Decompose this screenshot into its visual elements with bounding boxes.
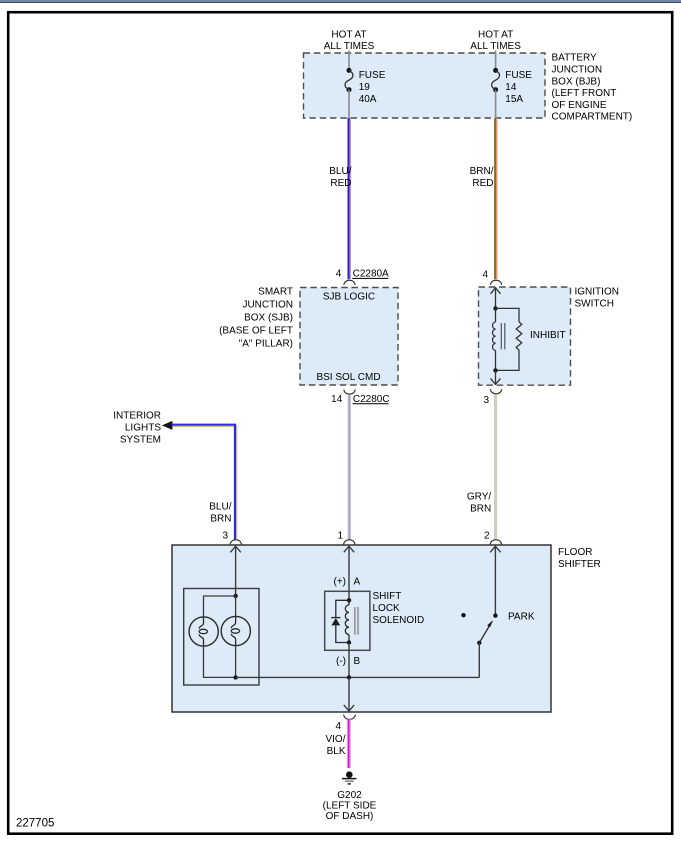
svg-text:3: 3 <box>222 531 228 542</box>
svg-text:BOX (SJB): BOX (SJB) <box>244 313 293 324</box>
svg-text:B: B <box>354 656 361 667</box>
connector arc shifter pin 1 <box>344 540 356 545</box>
wire GRY/BRN <box>495 395 497 540</box>
svg-text:PARK: PARK <box>508 611 535 622</box>
wire fuse 19 to box edge <box>348 90 350 118</box>
node lamp top junction <box>233 594 237 598</box>
svg-text:JUNCTION: JUNCTION <box>242 300 293 311</box>
svg-text:SHIFTER: SHIFTER <box>558 559 601 570</box>
wire GRY/VIO from SJB to shifter pin 1 <box>348 395 349 540</box>
svg-text:ALL TIMES: ALL TIMES <box>324 41 375 52</box>
ignition entry arrow <box>491 288 501 309</box>
wire diode branch bottom <box>336 625 349 642</box>
svg-text:INTERIOR: INTERIOR <box>113 411 161 422</box>
svg-text:SYSTEM: SYSTEM <box>120 435 161 446</box>
svg-text:RED: RED <box>472 178 493 189</box>
pin 4 label C2280A <box>336 269 389 280</box>
wire coil to bottom node <box>495 350 497 370</box>
svg-text:4: 4 <box>336 269 342 280</box>
label (+) A <box>334 576 361 587</box>
pin 2 entry arrow <box>490 546 500 615</box>
svg-text:FUSE: FUSE <box>359 70 386 81</box>
svg-text:BATTERY: BATTERY <box>552 53 598 64</box>
label VIO/BLK <box>325 734 345 757</box>
svg-text:3: 3 <box>483 395 489 406</box>
inductor inhibit coil <box>492 322 504 350</box>
label HOT AT ALL TIMES (right) <box>470 29 521 52</box>
svg-text:SOLENOID: SOLENOID <box>373 615 425 626</box>
floor shifter box <box>172 545 551 712</box>
label FLOOR SHIFTER <box>558 547 601 570</box>
svg-text:SWITCH: SWITCH <box>575 299 614 310</box>
svg-text:A: A <box>354 576 361 587</box>
wire BRN/RED <box>495 118 497 279</box>
shifter exit arrow <box>344 677 354 711</box>
svg-text:SHIFT: SHIFT <box>373 591 402 602</box>
label INTERIOR LIGHTS SYSTEM <box>113 411 161 446</box>
label GRY/BRN <box>467 492 491 515</box>
svg-text:BLU/: BLU/ <box>329 166 351 177</box>
wire fuse 14 to box edge <box>495 90 497 118</box>
svg-text:14: 14 <box>331 394 343 405</box>
svg-text:COMPARTMENT): COMPARTMENT) <box>552 112 633 123</box>
svg-text:1: 1 <box>337 531 343 542</box>
park switch blade <box>479 620 493 643</box>
svg-text:BSI SOL CMD: BSI SOL CMD <box>316 372 380 383</box>
wire BLU/BRN vertical <box>235 425 237 540</box>
svg-text:BRN: BRN <box>470 504 491 515</box>
pin 3 entry arrow <box>230 546 240 596</box>
connector arc shifter pin 4 <box>344 715 356 720</box>
svg-text:227705: 227705 <box>16 818 54 830</box>
resistor inhibit <box>516 322 522 350</box>
diode D1 <box>331 618 340 626</box>
svg-text:2: 2 <box>484 531 490 542</box>
smart junction box SJB <box>300 288 398 386</box>
label BLU/BRN <box>209 502 231 525</box>
svg-text:IGNITION: IGNITION <box>575 287 619 298</box>
svg-text:SJB LOGIC: SJB LOGIC <box>323 292 375 303</box>
svg-text:JUNCTION: JUNCTION <box>552 65 603 76</box>
wire diode branch top <box>336 600 349 617</box>
wire lamp right lower <box>235 646 237 678</box>
svg-text:OF ENGINE: OF ENGINE <box>552 100 607 111</box>
label BJB <box>552 53 633 123</box>
svg-text:GRY/: GRY/ <box>467 492 491 503</box>
svg-text:G202: G202 <box>337 790 362 801</box>
wire bottom bus <box>236 676 480 678</box>
svg-text:(-): (-) <box>336 656 346 667</box>
node ignition bottom junction <box>493 368 497 372</box>
svg-text:4: 4 <box>482 270 488 281</box>
wire lamp left branch <box>204 596 236 617</box>
wire node to coil <box>495 308 497 322</box>
lamp right bulb <box>221 616 250 645</box>
connector arc ignition bottom <box>490 389 502 394</box>
pin 14 label C2280C <box>331 394 389 405</box>
svg-text:(LEFT SIDE: (LEFT SIDE <box>323 801 377 812</box>
svg-text:VIO/: VIO/ <box>325 734 345 745</box>
wire solenoid to bottom node <box>348 643 350 678</box>
node solenoid bottom <box>347 640 351 644</box>
svg-text:HOT AT: HOT AT <box>331 29 366 40</box>
pin 1 entry arrow <box>344 546 354 591</box>
svg-text:15A: 15A <box>505 94 523 105</box>
svg-text:HOT AT: HOT AT <box>478 29 513 40</box>
label G202 <box>323 790 377 822</box>
node solenoid top <box>347 598 351 602</box>
svg-text:BOX (BJB): BOX (BJB) <box>552 76 601 87</box>
wire resistor branch bottom <box>496 350 520 370</box>
svg-text:FLOOR: FLOOR <box>558 547 592 558</box>
wire BLU/RED <box>349 118 351 279</box>
node solenoid B junction <box>347 675 351 679</box>
wire pin1 into solenoid <box>348 591 350 600</box>
node park fixed contact <box>461 613 465 617</box>
top banner bar <box>0 0 681 3</box>
connector C2280C arc <box>344 390 356 395</box>
arrow to interior lights <box>162 421 172 430</box>
label HOT AT ALL TIMES (left) <box>324 29 375 52</box>
svg-text:14: 14 <box>505 82 517 93</box>
label SHIFT LOCK SOLENOID <box>373 591 425 626</box>
battery junction box BJB <box>304 53 546 118</box>
label BRN/RED <box>470 166 494 189</box>
node park lower contact <box>477 641 481 645</box>
fuse F19 40A <box>345 68 386 105</box>
svg-text:(LEFT FRONT: (LEFT FRONT <box>552 88 617 99</box>
svg-text:C2280C: C2280C <box>353 394 390 405</box>
svg-text:INHIBIT: INHIBIT <box>530 330 566 341</box>
node ignition top junction <box>493 306 497 310</box>
node lamp bottom junction <box>233 675 237 679</box>
svg-text:OF DASH): OF DASH) <box>326 811 374 822</box>
wire feed fuse 19 <box>348 51 350 71</box>
svg-text:BRN: BRN <box>210 514 231 525</box>
svg-text:19: 19 <box>359 82 371 93</box>
svg-text:LIGHTS: LIGHTS <box>125 423 161 434</box>
connector arc shifter pin 2 <box>490 540 502 545</box>
wire lamp left lower <box>204 646 234 677</box>
solenoid coil <box>345 600 358 642</box>
fuse F14 15A <box>492 68 533 105</box>
lamp left bulb <box>189 617 218 646</box>
wire VIO/BLK <box>349 719 351 768</box>
label (-) B <box>336 656 361 667</box>
wire BLU/BRN horizontal <box>172 425 237 427</box>
svg-text:SMART: SMART <box>258 287 293 298</box>
label IGNITION SWITCH <box>575 287 619 310</box>
svg-text:BLU/: BLU/ <box>209 502 231 513</box>
connector arc shifter pin 3 <box>230 540 242 545</box>
svg-text:LOCK: LOCK <box>373 603 401 614</box>
connector arc ignition top <box>490 280 502 285</box>
wire feed fuse 14 <box>495 51 497 71</box>
ignition exit arrow <box>491 370 501 384</box>
svg-text:40A: 40A <box>359 94 377 105</box>
svg-text:RED: RED <box>330 178 351 189</box>
svg-text:(+): (+) <box>334 576 347 587</box>
connector C2280A arc <box>344 280 356 285</box>
svg-text:(BASE OF LEFT: (BASE OF LEFT <box>219 326 293 337</box>
svg-text:4: 4 <box>335 721 341 732</box>
wire park to bottom bus <box>478 643 480 678</box>
label SMART JUNCTION BOX <box>219 287 293 350</box>
label BLU/RED <box>329 166 351 189</box>
node park upper contact <box>493 613 497 617</box>
svg-text:ALL TIMES: ALL TIMES <box>470 41 521 52</box>
ignition switch box <box>479 287 571 385</box>
svg-text:FUSE: FUSE <box>505 70 532 81</box>
ground G202 <box>342 771 356 784</box>
svg-text:"A" PILLAR): "A" PILLAR) <box>239 339 293 350</box>
svg-text:BRN/: BRN/ <box>470 166 494 177</box>
svg-text:BLK: BLK <box>327 746 346 757</box>
lamp sub-box <box>184 589 259 686</box>
solenoid sub-box <box>325 591 370 650</box>
wire lamp right branch upper <box>235 596 237 617</box>
wire resistor branch top <box>496 308 520 322</box>
